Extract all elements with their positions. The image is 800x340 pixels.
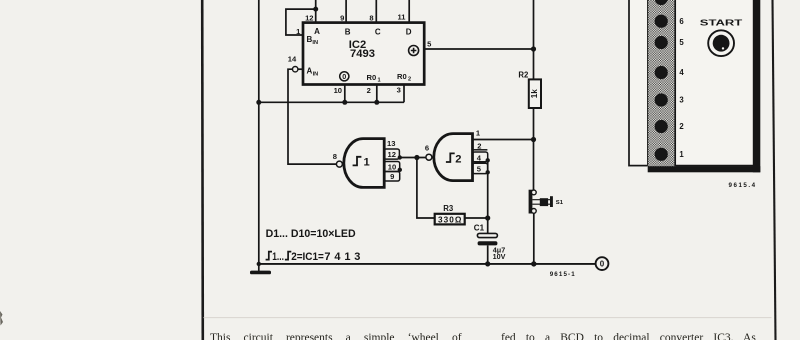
- svg-text:This circuit represents a simp: This circuit represents a simple ‘wheel …: [210, 332, 462, 340]
- junction pin5 node: [531, 46, 536, 51]
- page smudge left edge: [0, 311, 3, 326]
- svg-text:2=IC1=: 2=IC1=: [291, 251, 324, 263]
- resistor R3: [435, 214, 465, 225]
- svg-text:START: START: [700, 18, 744, 28]
- svg-text:fed to a BCD to decimal conver: fed to a BCD to decimal converter IC3. A…: [501, 332, 756, 340]
- svg-text:11: 11: [397, 13, 406, 22]
- terminal 0V circled: [596, 257, 609, 270]
- svg-text:A: A: [314, 27, 320, 36]
- start button: [708, 30, 734, 56]
- right column rule: [773, 0, 776, 340]
- svg-text:6: 6: [679, 17, 684, 26]
- svg-text:R2: R2: [518, 71, 529, 80]
- wire reset bus: [259, 101, 404, 103]
- terminal 0 circled: [340, 72, 349, 81]
- panel shadow bottom: [648, 166, 761, 172]
- junction bus pin10: [342, 100, 347, 105]
- pin 2 stub: [473, 149, 488, 151]
- wire 0V rail: [259, 263, 596, 265]
- junction bus-left: [256, 100, 261, 105]
- bottom hairline rule: [204, 317, 772, 319]
- junction U1 inputs b: [398, 168, 402, 172]
- svg-text:1k: 1k: [530, 89, 539, 99]
- svg-text:R3: R3: [443, 204, 454, 213]
- svg-text:10V: 10V: [493, 252, 506, 261]
- wire QC riser: [375, 0, 377, 23]
- legend gate glyph 1: [266, 252, 272, 260]
- svg-text:R0: R0: [367, 73, 377, 82]
- pin 14 input circle: [293, 67, 298, 72]
- svg-text:A: A: [307, 67, 313, 76]
- LED D2: [655, 120, 668, 133]
- capacitor C1 plate top: [477, 233, 497, 237]
- svg-text:R0: R0: [397, 72, 407, 81]
- gate U2 output bubble pin 6: [426, 154, 432, 160]
- wire pin14 stub: [298, 68, 303, 70]
- pin box 12: [384, 149, 399, 159]
- pin box 9: [384, 172, 400, 182]
- junction rail corner: [257, 262, 261, 266]
- wire U2 out to U1 in: [400, 157, 426, 159]
- svg-text:3: 3: [397, 85, 401, 94]
- pin box 10: [384, 162, 400, 172]
- LED D3: [655, 93, 668, 106]
- svg-text:2: 2: [408, 77, 411, 83]
- svg-text:8: 8: [369, 14, 373, 23]
- LED D5: [655, 36, 668, 49]
- legend gate glyph 2: [285, 252, 291, 260]
- wire U2 inputs to C1 node: [487, 160, 489, 218]
- wire pin3 drop: [403, 85, 405, 103]
- pin box 4: [473, 152, 488, 162]
- junction U2 inputs b: [486, 170, 490, 174]
- LED D1: [655, 148, 668, 161]
- junction C1 node: [485, 215, 490, 220]
- svg-text:B: B: [345, 27, 351, 36]
- wire node to C1: [487, 218, 489, 234]
- svg-text:4: 4: [679, 68, 684, 77]
- capacitor C1 plate bottom: [478, 241, 498, 245]
- wire gate1 output to AIN: [288, 69, 336, 164]
- junction bus pin2: [374, 100, 379, 105]
- svg-text:330Ω: 330Ω: [438, 215, 462, 224]
- svg-text:C1: C1: [474, 223, 485, 232]
- svg-text:1...: 1...: [272, 251, 284, 263]
- left column rule: [201, 0, 204, 340]
- svg-text:1: 1: [679, 150, 684, 159]
- junction U2 inputs a: [486, 158, 490, 162]
- svg-text:2: 2: [679, 122, 684, 131]
- junction feedback node: [313, 7, 318, 12]
- wire U2 pin1 to node: [473, 139, 534, 141]
- wire R3 to C1 node: [465, 217, 488, 219]
- svg-text:9615-1: 9615-1: [550, 271, 576, 278]
- wire QD riser: [408, 0, 410, 23]
- svg-text:13: 13: [387, 139, 395, 148]
- wire R2 to S1: [533, 108, 535, 190]
- IC2 7493 body: [303, 23, 424, 85]
- svg-text:10: 10: [388, 162, 396, 171]
- svg-text:9: 9: [390, 172, 394, 181]
- gate U2 schmitt glyph: [446, 153, 455, 162]
- wire pin10 drop: [344, 85, 346, 103]
- svg-text:9: 9: [340, 13, 344, 22]
- svg-text:S1: S1: [556, 200, 564, 206]
- svg-text:D: D: [406, 27, 412, 36]
- svg-text:3: 3: [679, 96, 684, 105]
- resistor R2: [529, 79, 541, 108]
- svg-text:2: 2: [455, 154, 461, 166]
- svg-text:C: C: [375, 27, 381, 36]
- panel face: [629, 0, 754, 166]
- svg-text:5: 5: [679, 38, 684, 47]
- LED D6: [655, 15, 668, 28]
- wire S1 to rail: [533, 213, 535, 264]
- pushbutton S1: [529, 190, 533, 214]
- wire QB riser: [345, 0, 347, 23]
- svg-text:1: 1: [364, 157, 370, 169]
- svg-text:10: 10: [334, 86, 342, 95]
- svg-text:6: 6: [425, 143, 429, 152]
- svg-text:0: 0: [600, 260, 605, 269]
- svg-text:IN: IN: [312, 40, 318, 46]
- svg-text:14: 14: [288, 54, 297, 63]
- nand gate U1 body: [344, 139, 384, 188]
- gate U1 output bubble pin 8: [336, 161, 342, 167]
- junction rail C1: [485, 261, 490, 266]
- gate U1 schmitt glyph: [353, 157, 362, 166]
- svg-text:12: 12: [305, 14, 313, 23]
- wire C1 to rail: [487, 245, 489, 264]
- svg-text:1: 1: [378, 77, 381, 83]
- junction oscillator node: [414, 155, 419, 160]
- ground: [250, 271, 271, 275]
- LED D4: [655, 66, 668, 79]
- svg-text:D1... D10=10×LED: D1... D10=10×LED: [266, 228, 356, 240]
- wire supply riser top: [533, 0, 535, 79]
- wire 0V riser: [258, 0, 260, 271]
- panel shadow right: [753, 0, 761, 172]
- wire QA riser: [315, 0, 317, 23]
- LED D7 partial: [655, 0, 668, 5]
- wire node to R3: [417, 158, 435, 219]
- svg-text:IN: IN: [313, 72, 319, 78]
- nand gate U2 body: [434, 134, 473, 181]
- svg-text:8: 8: [333, 152, 337, 161]
- pin box 5: [473, 163, 488, 173]
- junction rail S1: [531, 261, 536, 266]
- wire pin2 drop: [376, 85, 378, 103]
- svg-text:2: 2: [367, 86, 371, 95]
- LED wheel strip: [647, 0, 676, 166]
- terminal plus circled: [409, 46, 419, 56]
- svg-text:7493: 7493: [350, 48, 375, 60]
- svg-text:12: 12: [387, 150, 395, 159]
- junction pin1 node: [531, 137, 536, 142]
- wire feedback QA to BIN: [286, 9, 316, 35]
- junction U1 inputs a: [398, 155, 402, 159]
- svg-text:0: 0: [342, 72, 346, 81]
- wire pin5 to supply node: [424, 48, 533, 50]
